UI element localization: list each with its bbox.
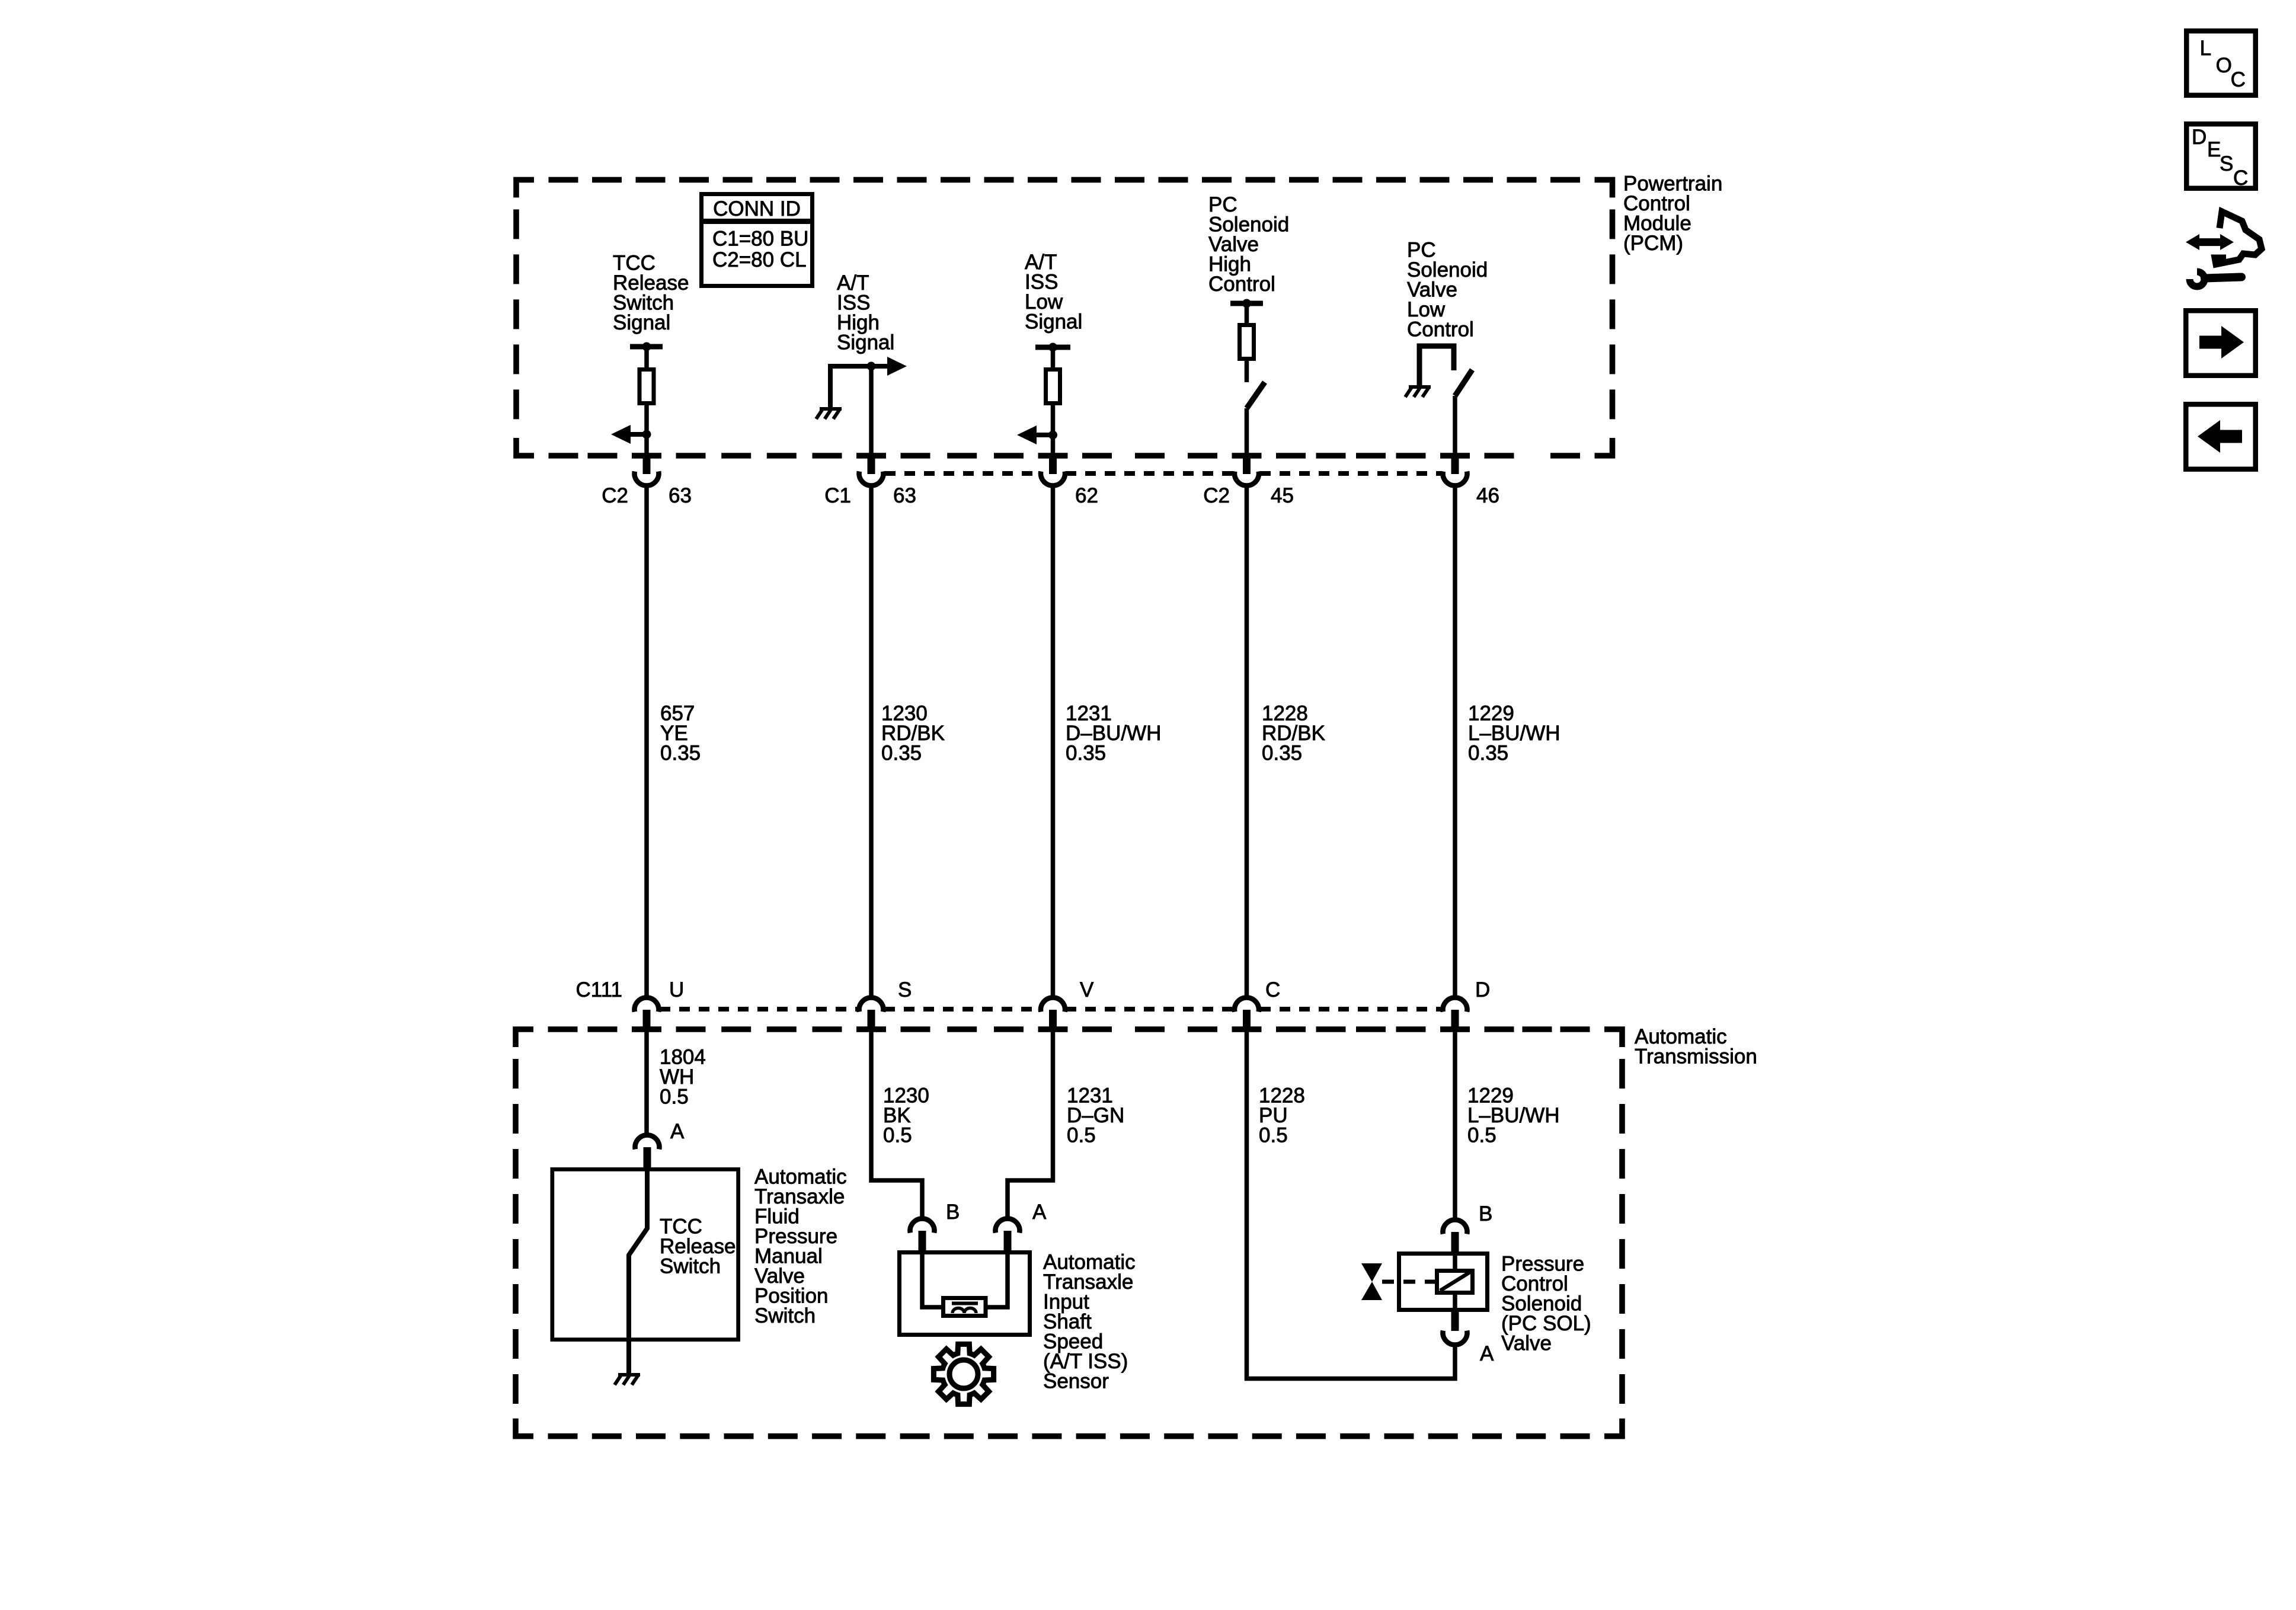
svg-text:A: A <box>670 1120 685 1143</box>
PCM dashed box: side borders <box>513 209 519 426</box>
dashed actuator link <box>1382 1280 1435 1284</box>
node: col3 top terminal <box>1048 343 1057 352</box>
wire crossing bar (AT border) <box>1440 1026 1470 1032</box>
PCM corner pieces <box>516 180 1613 456</box>
connector cup pin 62 <box>1041 472 1065 486</box>
svg-text:S: S <box>898 978 912 1001</box>
wire crossing bar (AT border) <box>1232 1026 1262 1032</box>
Automatic Transmission dashed box: top border <box>548 1026 578 1032</box>
svg-text:CONN ID: CONN ID <box>713 197 801 220</box>
svg-text:D: D <box>2192 126 2207 149</box>
ground (PCM internal, PC low) <box>1405 386 1431 397</box>
signal arrow (ISS high) <box>871 357 907 376</box>
switch: PCM driver (PC low) blade <box>1455 370 1472 396</box>
svg-text:O: O <box>2216 54 2232 77</box>
wire crossing bar col1 <box>632 453 661 459</box>
connector cup C2 pin 63 <box>635 472 659 486</box>
svg-text:62: 62 <box>1075 484 1098 507</box>
wire: col5 loop to ground <box>1419 346 1454 387</box>
pin stub C111 V <box>1049 1010 1057 1032</box>
svg-text:V: V <box>1080 978 1094 1001</box>
connector cup C111 pin U <box>635 998 659 1012</box>
wire: col2 junction to border <box>869 366 874 456</box>
wire: 657 YE (PCM to C111) <box>644 485 649 996</box>
svg-text:B: B <box>1479 1202 1492 1225</box>
pin stub C2-45 <box>1243 456 1251 474</box>
ISS sensor internal wiring <box>922 1250 1008 1307</box>
svg-text:U: U <box>669 978 684 1001</box>
connector cup pin 46 <box>1443 472 1467 486</box>
connector-row dashed tie line (C111) <box>660 1007 859 1012</box>
wire crossing bar col5 <box>1440 453 1470 459</box>
pin stub 62 <box>1049 456 1057 474</box>
ISS pickup coil element box <box>944 1298 986 1316</box>
svg-text:A: A <box>1032 1201 1047 1224</box>
wire: col5 switch to border <box>1453 396 1457 456</box>
wire: 1230 RD/BK (PCM to C111) <box>869 485 874 996</box>
svg-text:A: A <box>1480 1342 1494 1365</box>
resistor: PCM internal driver (PC high) <box>1240 325 1254 359</box>
pin stub A (PC SOL) <box>1451 1312 1459 1331</box>
TCC Release Switch box <box>552 1169 738 1339</box>
signal arrow (ISS low) <box>1017 425 1053 444</box>
DESC nav icon <box>2186 124 2256 188</box>
node: col4 top terminal <box>1242 299 1251 308</box>
connector cup C111 pin V <box>1041 998 1065 1012</box>
connector cup C1 pin 63 <box>859 472 884 486</box>
resistor: PCM internal (TCC signal) <box>639 370 654 404</box>
pin stub C111 D <box>1451 1010 1459 1032</box>
svg-text:C2: C2 <box>602 484 628 507</box>
wire crossing bar (AT border) <box>632 1026 661 1032</box>
ISS pickup coil symbol <box>952 1302 978 1305</box>
pin stub B <box>919 1231 926 1250</box>
svg-text:63: 63 <box>893 484 916 507</box>
svg-text:C1: C1 <box>824 484 851 507</box>
wire crossing bar col4 <box>1232 453 1262 459</box>
wire: col2 horizontal with ground branch <box>830 366 889 409</box>
wire: 1804 WH (C111 U to TCC switch pin A) <box>644 1032 649 1134</box>
AT dashed box: bottom border <box>548 1433 578 1439</box>
switch: PCM driver (PC high) blade <box>1247 382 1265 408</box>
wire: col3 resistor to border <box>1051 404 1056 456</box>
wire: 1228 PU (C111 C down and across to PC SOL pin A) <box>1247 1032 1456 1379</box>
wire crossing bar col2 <box>856 453 886 459</box>
node: col1 junction <box>642 430 651 439</box>
svg-text:C: C <box>1265 978 1280 1001</box>
pin stub C111 S <box>868 1010 875 1032</box>
wire: col4 resistor to switch <box>1245 359 1249 382</box>
wire: col1 resistor to border <box>644 404 649 456</box>
signal arrow (to TCC logic) <box>611 425 647 444</box>
svg-text:45: 45 <box>1271 484 1294 507</box>
node: col2 junction <box>867 362 876 371</box>
svg-text:C: C <box>2233 167 2248 190</box>
vehicle/wrench nav icon <box>2215 212 2262 264</box>
node: col1 top terminal <box>642 343 651 351</box>
AT dashed box: side borders <box>513 1059 519 1407</box>
svg-text:C111: C111 <box>576 978 622 1001</box>
valve symbol (hourglass) <box>1361 1263 1382 1282</box>
connector cup C111 pin S <box>859 998 884 1012</box>
wire: 1229 L-BU/WH (PCM to C111) <box>1453 485 1457 996</box>
wire: col4 top bar <box>1230 301 1263 306</box>
svg-text:D: D <box>1475 978 1490 1001</box>
AT corner pieces <box>516 1029 1622 1436</box>
pin stub C111 U <box>643 1010 651 1032</box>
solenoid diagonal <box>1440 1272 1470 1291</box>
CONN ID table <box>702 194 813 286</box>
ground (PCM internal, ISS high) <box>816 408 842 419</box>
svg-text:C: C <box>2231 68 2246 91</box>
wire: col3 bar to resistor <box>1051 347 1056 369</box>
wire: PC SOL internal top <box>1453 1251 1457 1270</box>
wire: col1 top bar <box>630 344 663 350</box>
svg-text:C1=80 BU: C1=80 BU <box>712 228 808 251</box>
switch: TCC release switch blade <box>629 1167 647 1375</box>
pin stub A <box>644 1147 651 1167</box>
connector cup ISS sensor pin A <box>996 1219 1020 1233</box>
svg-text:E: E <box>2207 138 2221 161</box>
wire crossing bar col3 <box>1038 453 1068 459</box>
connector cup TCC switch pin A <box>635 1135 660 1150</box>
wire: col4 switch to border <box>1245 408 1249 456</box>
wire: 1231 D-GN (C111 V to ISS sensor pin A) <box>1008 1032 1053 1218</box>
connector cup C111 pin D <box>1443 998 1467 1012</box>
wire: col1 bar to resistor <box>644 347 649 369</box>
PCM dashed box: bottom border <box>549 453 578 459</box>
svg-text:C2=80 CL: C2=80 CL <box>712 248 807 271</box>
pin stub 46 <box>1451 456 1459 474</box>
svg-text:63: 63 <box>669 484 692 507</box>
svg-text:B: B <box>946 1201 960 1224</box>
pin stub C1-63 <box>868 456 875 474</box>
svg-text:S: S <box>2220 152 2233 175</box>
connector cup PC SOL pin B <box>1443 1220 1467 1234</box>
connector-row dashed tie line (PCM connectors) <box>885 471 1041 476</box>
next-page arrow nav icon <box>2186 311 2256 376</box>
wire crossing bar (AT border) <box>856 1026 886 1032</box>
pin stub C2-63 <box>643 456 651 474</box>
previous-page arrow nav icon <box>2186 404 2256 469</box>
pin stub A <box>1004 1231 1012 1250</box>
node: col3 junction <box>1048 431 1057 440</box>
wire crossing bar (AT border) <box>1038 1026 1068 1032</box>
wire: 1230 BK (C111 S to ISS sensor pin B) <box>871 1032 922 1218</box>
connector cup C2 pin 45 <box>1235 472 1259 486</box>
pin stub B <box>1451 1232 1459 1251</box>
A/T ISS sensor box <box>900 1253 1030 1335</box>
LOC nav icon <box>2186 31 2256 95</box>
Powertrain Control Module (PCM) dashed box: top border <box>549 177 578 183</box>
connector cup C111 pin C <box>1235 998 1259 1012</box>
pin stub C111 C <box>1243 1010 1251 1032</box>
connector cup ISS sensor pin B <box>910 1219 934 1233</box>
wire: 1231 D-BU/WH (PCM to C111) <box>1051 485 1056 996</box>
ground (TCC release switch) <box>615 1374 640 1385</box>
svg-text:46: 46 <box>1476 484 1499 507</box>
Pressure Control Solenoid valve box <box>1399 1254 1488 1310</box>
wire: PC SOL internal bottom <box>1453 1293 1457 1312</box>
wire: 1228 RD/BK (PCM to C111) <box>1245 485 1249 996</box>
wire: col4 bar to resistor <box>1245 303 1249 325</box>
svg-text:C2: C2 <box>1203 484 1230 507</box>
connector cup PC SOL pin A <box>1443 1331 1467 1345</box>
gear icon (input shaft) <box>933 1344 993 1404</box>
wire: 1229 L-BU/WH (C111 D to PC SOL pin B) <box>1453 1032 1457 1219</box>
wire: col3 top bar <box>1035 345 1070 350</box>
resistor: PCM internal (ISS low) <box>1046 370 1060 404</box>
solenoid coil element <box>1437 1271 1473 1293</box>
svg-text:L: L <box>2200 37 2211 60</box>
